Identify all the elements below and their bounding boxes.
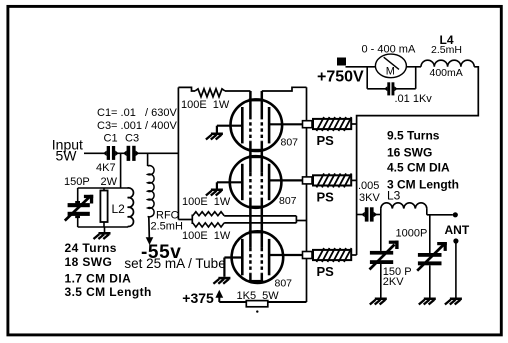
svg-text:2KV: 2KV xyxy=(383,276,404,288)
svg-text:4.5 CM DIA: 4.5 CM DIA xyxy=(387,161,450,175)
svg-text:+750V: +750V xyxy=(317,69,364,86)
svg-text:PS: PS xyxy=(317,189,335,204)
svg-text:2W: 2W xyxy=(101,176,118,188)
svg-text:C1: C1 xyxy=(104,133,118,145)
svg-text:100E 1W: 100E 1W xyxy=(182,230,231,242)
svg-text:24 Turns: 24 Turns xyxy=(65,241,117,255)
svg-text:L2: L2 xyxy=(112,202,126,216)
svg-text:807: 807 xyxy=(275,278,293,290)
svg-text:150P: 150P xyxy=(64,176,90,188)
svg-text:M: M xyxy=(386,66,395,78)
svg-text:.005: .005 xyxy=(358,180,379,192)
svg-text:2.5mH: 2.5mH xyxy=(431,44,462,56)
svg-text:5W: 5W xyxy=(56,148,78,164)
svg-text:.01 1Kv: .01 1Kv xyxy=(395,93,433,105)
svg-text:set 25 mA / Tube: set 25 mA / Tube xyxy=(124,256,225,271)
svg-text:3KV: 3KV xyxy=(359,192,380,204)
svg-text:807: 807 xyxy=(281,136,299,148)
svg-text:100E 1W: 100E 1W xyxy=(182,196,231,208)
svg-text:PS: PS xyxy=(317,264,335,279)
svg-text:18 SWG: 18 SWG xyxy=(65,255,113,269)
svg-text:807: 807 xyxy=(279,195,297,207)
svg-text:400mA: 400mA xyxy=(430,67,463,79)
svg-text:1K5 5W: 1K5 5W xyxy=(237,290,280,302)
svg-text:L3: L3 xyxy=(387,189,401,203)
svg-text:C1= .01 / 630V: C1= .01 / 630V xyxy=(97,107,177,119)
svg-text:100E 1W: 100E 1W xyxy=(181,99,230,111)
svg-text:16 SWG: 16 SWG xyxy=(387,145,432,159)
svg-text:1.7 CM DIA: 1.7 CM DIA xyxy=(65,272,132,286)
svg-text:C3: C3 xyxy=(125,133,139,145)
svg-text:C3= .001 / 400V: C3= .001 / 400V xyxy=(97,120,177,132)
svg-text:9.5 Turns: 9.5 Turns xyxy=(387,129,440,143)
svg-text:+375: +375 xyxy=(182,290,214,306)
svg-text:4K7: 4K7 xyxy=(96,162,116,174)
svg-text:ANT: ANT xyxy=(445,223,470,237)
svg-text:3.5 CM Length: 3.5 CM Length xyxy=(65,285,152,299)
svg-text:2.5mH: 2.5mH xyxy=(151,220,183,232)
svg-text:PS: PS xyxy=(317,133,335,148)
svg-text:1000P: 1000P xyxy=(396,228,428,240)
svg-text:0 - 400 mA: 0 - 400 mA xyxy=(362,44,416,56)
